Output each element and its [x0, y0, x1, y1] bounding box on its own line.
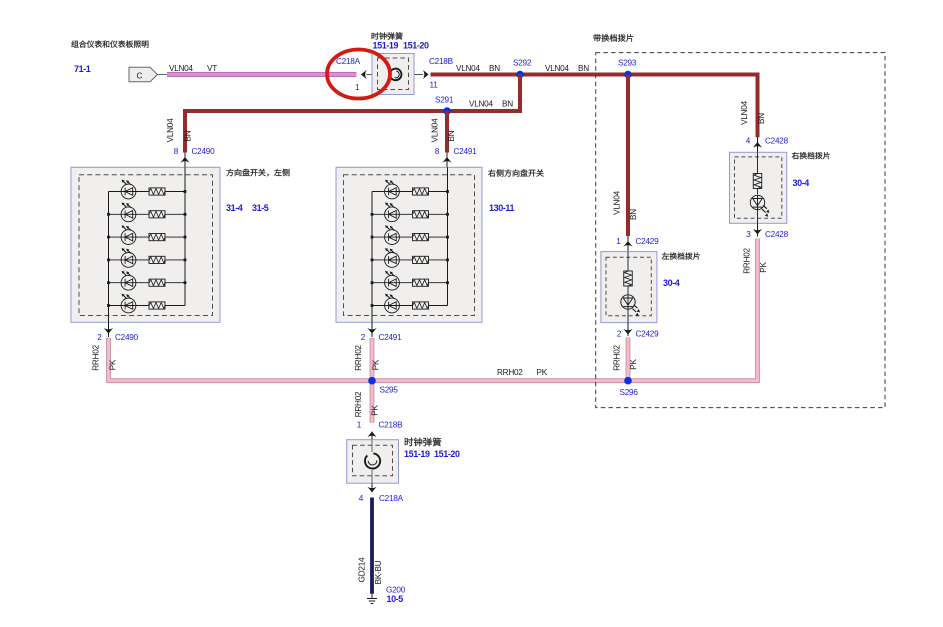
svg-text:BN: BN [757, 113, 766, 124]
LED lamp row 4 [109, 259, 186, 261]
svg-text:C218B: C218B [429, 57, 454, 66]
connector C218A pin 4 [367, 487, 376, 493]
svg-text:2: 2 [617, 330, 622, 339]
junction [107, 236, 110, 239]
caption: with shift paddles [593, 34, 633, 42]
svg-text:VLN04: VLN04 [169, 64, 193, 73]
clock spring (bottom) [347, 440, 399, 484]
caption: right side steering wheel switch [488, 169, 544, 177]
resistor row 2 [413, 211, 429, 218]
svg-text:1: 1 [355, 83, 360, 92]
LED lamp (right paddle) [750, 195, 764, 209]
svg-text:BN: BN [447, 130, 456, 141]
wire [371, 192, 373, 323]
svg-text:151-20: 151-20 [434, 449, 460, 459]
svg-text:C: C [137, 71, 143, 80]
caption: clock spring [372, 32, 403, 39]
svg-text:C2491: C2491 [454, 147, 478, 156]
wire [447, 167, 449, 305]
svg-text:C2429: C2429 [636, 237, 660, 246]
LED lamp row 1 [372, 191, 448, 193]
svg-text:VT: VT [207, 64, 217, 73]
wire S292 branch down to second run [185, 75, 520, 153]
svg-text:RRH02: RRH02 [497, 368, 523, 377]
off-page connector C [129, 67, 158, 81]
caption: steering wheel switch, left side [226, 169, 289, 177]
svg-text:PK: PK [371, 405, 380, 416]
LED lamp row 5 [372, 282, 448, 284]
svg-text:71-1: 71-1 [74, 64, 91, 74]
right shift paddle box [730, 152, 787, 223]
LED lamp row 6 [372, 305, 448, 307]
LED lamp (left paddle) [621, 295, 635, 309]
caption: instrument cluster and panel illumination [71, 40, 148, 47]
ground G200 [367, 594, 377, 604]
caption: left shift paddle [662, 252, 700, 259]
left steering wheel switch box [71, 167, 220, 322]
resistor row 3 [149, 234, 165, 241]
svg-text:BN: BN [629, 209, 638, 220]
svg-text:151-19: 151-19 [404, 449, 430, 459]
svg-text:BK-BU: BK-BU [374, 560, 383, 584]
junction [107, 281, 110, 284]
svg-text:C218A: C218A [336, 57, 361, 66]
wire S291 branch down [445, 111, 449, 153]
LED lamp row 3 [109, 236, 186, 238]
svg-text:1: 1 [357, 421, 362, 430]
svg-text:4: 4 [359, 494, 364, 503]
splice S296 [624, 377, 632, 385]
LED lamp row 6 [109, 305, 186, 307]
highlight ellipse [327, 50, 390, 99]
connector C2490 pin 2 [108, 322, 110, 337]
svg-text:C218B: C218B [379, 421, 404, 430]
svg-text:151-20: 151-20 [403, 41, 429, 51]
svg-text:PK: PK [629, 359, 638, 370]
svg-text:C2429: C2429 [636, 330, 660, 339]
dashed enclosure: with shift paddles [596, 53, 885, 408]
right steering wheel switch box [336, 167, 482, 322]
resistor row 5 [149, 279, 165, 286]
wire GD214 BK-BU (navy) [370, 498, 374, 594]
resistor row 1 [413, 188, 429, 195]
connector C2491 pin 2 [371, 322, 373, 337]
wire S293 down to C2429 [626, 75, 630, 237]
svg-text:S293: S293 [618, 59, 637, 68]
svg-text:GD214: GD214 [358, 557, 367, 582]
svg-text:VLN04: VLN04 [431, 118, 440, 142]
resistor row 6 [413, 302, 429, 309]
svg-text:C2428: C2428 [765, 230, 789, 239]
svg-text:RRH02: RRH02 [354, 345, 363, 371]
connector C2429 pin 2 [627, 323, 629, 336]
wire [108, 192, 110, 323]
junction [184, 281, 187, 284]
wire [184, 167, 186, 305]
svg-text:PK: PK [537, 368, 548, 377]
junction [107, 304, 110, 307]
svg-text:RRH02: RRH02 [354, 391, 363, 417]
connector C2428 pin 3 [757, 223, 759, 236]
LED lamp row 2 [109, 213, 186, 215]
svg-text:S291: S291 [435, 96, 454, 105]
svg-text:VLN04: VLN04 [166, 118, 175, 142]
junction [446, 190, 449, 193]
resistor row 3 [413, 234, 429, 241]
LED lamp row 1 [109, 191, 186, 193]
LED lamp row 4 [372, 259, 448, 261]
junction [446, 236, 449, 239]
svg-text:4: 4 [746, 137, 751, 146]
svg-text:BN: BN [578, 64, 589, 73]
junction [107, 259, 110, 262]
caption: clock spring [405, 438, 441, 447]
junction [446, 281, 449, 284]
resistor row 2 [149, 211, 165, 218]
clock spring (top) [372, 54, 414, 95]
splice S292 [516, 71, 524, 79]
svg-text:C2490: C2490 [115, 333, 139, 342]
svg-text:30-4: 30-4 [793, 178, 810, 188]
svg-text:8: 8 [174, 147, 179, 156]
resistor row 1 [149, 188, 165, 195]
resistor row 5 [413, 279, 429, 286]
svg-text:31-5: 31-5 [252, 203, 269, 213]
svg-text:3: 3 [746, 230, 751, 239]
svg-text:VLN04: VLN04 [545, 64, 569, 73]
svg-text:11: 11 [430, 81, 439, 90]
svg-text:PK: PK [109, 359, 118, 370]
svg-text:BN: BN [184, 130, 193, 141]
connector C2428 pin 4 [757, 137, 759, 152]
junction [446, 259, 449, 262]
svg-text:C2428: C2428 [765, 137, 789, 146]
svg-text:S295: S295 [380, 386, 399, 395]
svg-text:151-19: 151-19 [373, 41, 399, 51]
svg-text:VLN04: VLN04 [740, 100, 749, 124]
connector C2490 pin 8 [184, 153, 186, 168]
wire VLN04 VT (violet) [167, 72, 357, 77]
junction [107, 213, 110, 216]
svg-text:8: 8 [435, 147, 440, 156]
LED lamp row 3 [372, 236, 448, 238]
svg-text:S296: S296 [620, 388, 639, 397]
svg-text:1: 1 [616, 237, 621, 246]
junction [371, 281, 374, 284]
resistor row 6 [149, 302, 165, 309]
svg-text:31-4: 31-4 [226, 203, 243, 213]
junction [371, 213, 374, 216]
svg-text:C2491: C2491 [379, 333, 403, 342]
wire inside paddle [627, 252, 629, 323]
junction [371, 236, 374, 239]
wire VLN04 BN top run [431, 75, 758, 138]
wire through clockspring [367, 74, 424, 76]
svg-text:VLN04: VLN04 [456, 64, 480, 73]
connector C218B pin 1 [367, 432, 376, 438]
resistor row 4 [149, 256, 165, 263]
junction [184, 259, 187, 262]
wire stub from connector C [158, 74, 168, 76]
svg-text:RRH02: RRH02 [613, 345, 622, 371]
svg-text:VLN04: VLN04 [613, 190, 622, 214]
LED lamp row 5 [109, 282, 186, 284]
resistor (left paddle) [624, 271, 633, 286]
wire RRH02 PK branch to C218B [370, 381, 375, 423]
svg-text:C2490: C2490 [192, 147, 216, 156]
svg-text:VLN04: VLN04 [469, 99, 493, 108]
wire RRH02 PK from C2491 pin 2 to S295 [370, 338, 375, 381]
LED lamp row 2 [372, 213, 448, 215]
junction [184, 236, 187, 239]
svg-text:C218A: C218A [379, 494, 404, 503]
svg-text:BN: BN [489, 64, 500, 73]
caption: right shift paddle [792, 152, 830, 159]
splice S291 [443, 107, 451, 115]
svg-text:PK: PK [759, 262, 768, 273]
resistor row 4 [413, 256, 429, 263]
connector C218B pin 11 [423, 70, 429, 79]
svg-text:30-4: 30-4 [663, 278, 680, 288]
left shift paddle box [601, 252, 657, 323]
junction [371, 304, 374, 307]
svg-text:S292: S292 [513, 59, 532, 68]
junction [184, 190, 187, 193]
connector C2429 pin 1 [627, 236, 629, 252]
splice S293 [624, 71, 632, 79]
svg-text:130-11: 130-11 [489, 203, 515, 213]
connector C2491 pin 8 [446, 153, 448, 168]
svg-text:PK: PK [372, 359, 381, 370]
svg-text:2: 2 [361, 333, 366, 342]
junction [184, 213, 187, 216]
svg-text:2: 2 [97, 333, 102, 342]
svg-text:BN: BN [502, 99, 513, 108]
svg-text:10-5: 10-5 [387, 594, 404, 604]
junction [371, 259, 374, 262]
wire inside paddle [757, 152, 759, 223]
svg-text:RRH02: RRH02 [92, 345, 101, 371]
resistor (right paddle) [753, 174, 762, 189]
svg-text:RRH02: RRH02 [743, 248, 752, 274]
junction [446, 213, 449, 216]
wire RRH02 PK from left paddle [626, 338, 631, 381]
wire RRH02 PK main run [109, 239, 758, 381]
splice S295 [368, 377, 376, 385]
